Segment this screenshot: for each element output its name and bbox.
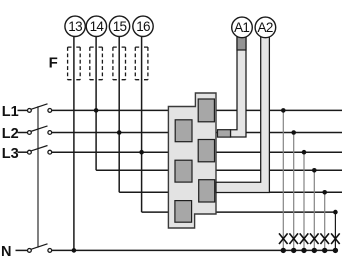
svg-text:N: N bbox=[1, 244, 11, 260]
svg-text:A2: A2 bbox=[258, 20, 273, 35]
svg-text:L2: L2 bbox=[2, 126, 19, 142]
svg-text:A1: A1 bbox=[234, 20, 249, 35]
svg-text:14: 14 bbox=[90, 19, 105, 34]
svg-text:L3: L3 bbox=[2, 146, 19, 162]
svg-text:15: 15 bbox=[113, 19, 127, 34]
svg-text:13: 13 bbox=[68, 19, 82, 34]
svg-text:16: 16 bbox=[136, 19, 150, 34]
svg-text:L1: L1 bbox=[2, 104, 19, 120]
svg-text:F: F bbox=[49, 54, 58, 71]
